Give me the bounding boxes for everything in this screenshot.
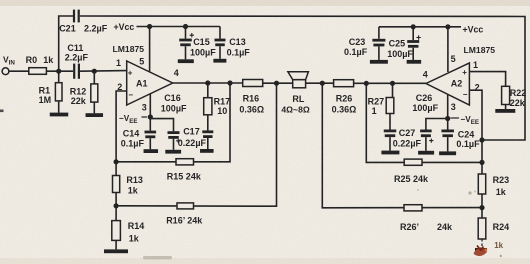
node speaker right [320, 81, 325, 86]
supply label -Vee right [451, 117, 460, 119]
resistor R15 [176, 159, 194, 165]
node R27 tap [390, 81, 395, 86]
node input junction [56, 69, 61, 74]
wire input node to C21 [59, 16, 73, 71]
node R15 feedback tap [227, 80, 232, 85]
paper noise [0, 0, 1, 1]
ground C23 [370, 60, 388, 64]
resistor R0 [29, 68, 47, 75]
resistor R26p [404, 205, 422, 211]
capacitor C23 [378, 27, 380, 39]
wire A1 pin 2 feedback [116, 91, 127, 162]
wire A2 pin 5 to +Vcc [447, 27, 449, 72]
resistor R23 [481, 162, 483, 174]
wire R0 to C11 [46, 70, 73, 72]
ground R14 [104, 249, 128, 253]
node R13 R14 junction [114, 203, 119, 208]
resistor R17 [207, 83, 209, 98]
scan specks [468, 191, 471, 194]
ground C15 [178, 59, 194, 63]
resistor R26 [334, 80, 354, 87]
node C25 tap [411, 24, 416, 29]
capacitor C27 [389, 114, 391, 130]
ground C26 [418, 151, 434, 155]
capacitor C25 [412, 27, 414, 40]
ground R1 [50, 113, 69, 117]
capacitor C17 [207, 115, 209, 131]
wire +Vcc rail left [137, 26, 221, 28]
ground C16 [165, 150, 181, 154]
ground R22 [505, 105, 507, 110]
speaker RL [293, 80, 306, 88]
ground C17 [200, 149, 214, 153]
resistor R16p [177, 203, 194, 209]
capacitor C21 [73, 10, 75, 23]
wire A2 pin 2 feedback riser [469, 90, 482, 162]
capacitor C26 [426, 119, 448, 130]
ground C13 [213, 59, 226, 63]
wire R16 to speaker [263, 82, 293, 84]
wire +Vcc rail right [379, 26, 461, 28]
capacitor C11 [73, 64, 75, 79]
resistor R1 [58, 71, 60, 83]
wire A2 pin 3 to -Vee node [447, 94, 449, 119]
wire C11 to A1 pin 1 [80, 70, 127, 73]
wire A2 pin 1 to R22 [469, 72, 505, 87]
watermark red mark [474, 247, 488, 256]
wire R26 to A2 output [354, 82, 426, 84]
capacitor C15 [185, 27, 187, 39]
wire A1 pin 3 to -Vee node [149, 94, 151, 117]
capacitor C16 [150, 119, 173, 132]
node R23 top junction [479, 160, 484, 165]
scan smudge bottom [143, 256, 172, 259]
node R25 feedback tap [364, 81, 369, 86]
resistor R16 [243, 80, 263, 87]
ground C27 [381, 151, 399, 155]
wire input to R0 [9, 70, 29, 72]
resistor R25 [404, 159, 422, 165]
wire A1 output bus [173, 82, 243, 84]
resistor R13 [115, 162, 117, 176]
wire R26p line to speaker right [322, 83, 482, 208]
ground R12 [86, 113, 104, 117]
wire C21 across top to A2 side [80, 16, 525, 140]
wire R15 line [116, 83, 230, 162]
capacitor C13 [219, 27, 221, 39]
resistor R12 [93, 71, 95, 84]
node R12 junction [92, 69, 97, 74]
node R13 top junction [114, 159, 119, 164]
ground C25 [407, 60, 422, 64]
capacitor C24 [447, 119, 449, 130]
ground R24 [475, 248, 487, 251]
wire speaker to R26 [306, 82, 334, 84]
resistor R22 [502, 86, 510, 104]
node A1 pin5 tap [147, 24, 152, 29]
ground C24 [439, 151, 456, 155]
input terminal VIN [2, 68, 9, 75]
resistor R27 [392, 83, 394, 97]
node speaker left [274, 81, 279, 86]
op-amp U1 LM1875 A1 [127, 61, 173, 105]
node C21 junction [479, 137, 484, 142]
node A1 -Vee junction [148, 114, 153, 119]
node A2 pin5 tap [445, 24, 450, 29]
resistor R24 [481, 208, 483, 218]
node R17 tap [205, 80, 210, 85]
edge artifact [0, 110, 4, 113]
wire R25 line [366, 83, 482, 162]
node C15 tap [183, 24, 188, 29]
wire A1 pin 5 to +Vcc [149, 27, 151, 73]
resistor R14 [115, 206, 117, 221]
capacitor C14 [149, 117, 151, 131]
node R23 R24 junction [479, 205, 484, 210]
ground C14 [144, 149, 159, 153]
op-amp U2 LM1875 A2 [426, 63, 469, 105]
wire R16p line to speaker left [116, 83, 276, 206]
node A2 -Vee junction [445, 116, 450, 121]
